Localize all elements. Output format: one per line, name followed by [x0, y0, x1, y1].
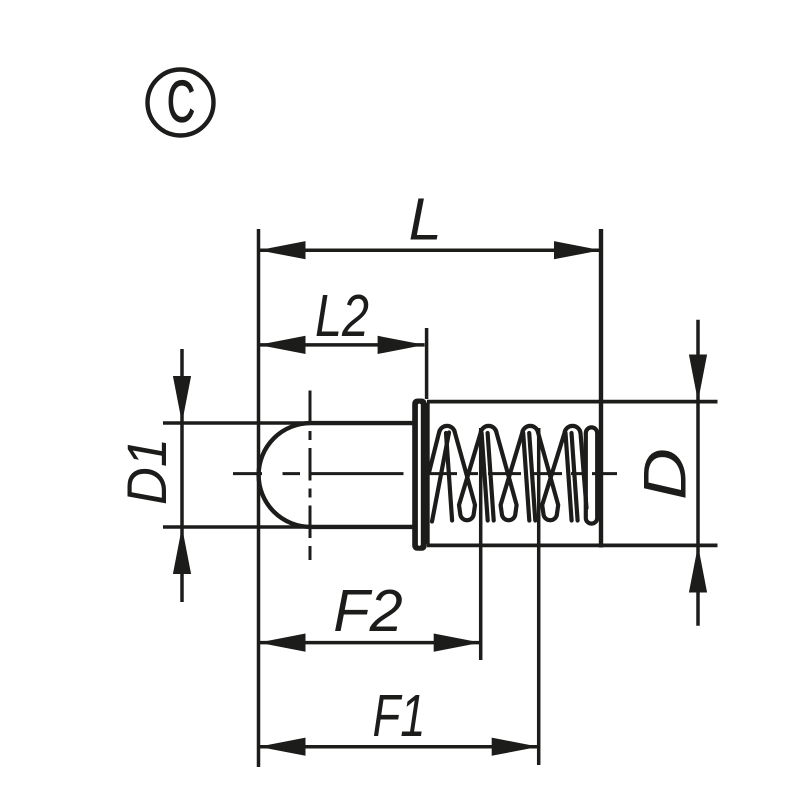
dimension F2 [259, 577, 481, 652]
extension line left master (x=258.5) [257, 229, 261, 767]
plunger pin bottom edge [311, 525, 414, 529]
centerline horizontal [233, 472, 617, 475]
sleeve bottom edge (extends right as D extension) [427, 544, 718, 548]
spring back strand under coil 1 [446, 433, 452, 521]
spring back strand pair under coil 2 [482, 433, 494, 521]
dimension L2 [259, 282, 425, 354]
flange collar (filled with inner slit) [412, 399, 427, 551]
spring start strand to wall [432, 433, 449, 522]
svg-text:D1: D1 [115, 438, 178, 505]
svg-text:C: C [167, 70, 195, 135]
svg-text:D: D [632, 448, 699, 500]
extension line right of L2 above flange [425, 328, 429, 399]
sleeve top edge (extends right as D extension) [427, 400, 718, 404]
dimension D1 [115, 349, 309, 602]
svg-text:F1: F1 [373, 682, 426, 749]
spring wall stub strand [429, 434, 439, 473]
extension line right of L (x=600.5 upper part) [599, 229, 603, 402]
sleeve left wall [426, 403, 430, 544]
variant marker circled C [148, 70, 214, 136]
dimension D [632, 320, 708, 626]
extension line right of F2 [479, 428, 483, 660]
centerline vertical (dome tangent) [309, 391, 312, 561]
sleeve right end cap [599, 400, 603, 548]
spring closed end coil [586, 427, 597, 523]
svg-text:L2: L2 [315, 282, 369, 349]
spring back strand pair under coil 4 [566, 433, 578, 521]
svg-text:F2: F2 [333, 577, 402, 644]
dimension F1 [259, 682, 539, 756]
extension line right of F1 [537, 428, 541, 765]
dimension L [259, 186, 602, 260]
spring main coil path [439, 426, 587, 520]
plunger pin top edge [311, 421, 414, 425]
svg-text:L: L [409, 186, 442, 253]
plunger pin dome nose [259, 423, 311, 527]
spring back strand pair under coil 3 [523, 433, 535, 521]
